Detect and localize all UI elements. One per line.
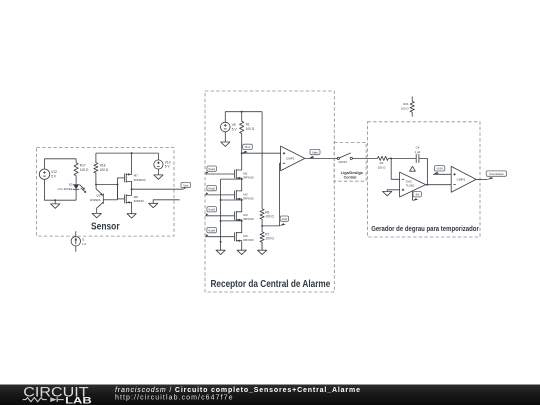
svg-text:Vsa4: Vsa4 (208, 229, 215, 233)
voltage source V9 (221, 122, 231, 132)
op-amp positive supply arrow (410, 166, 416, 171)
wire source tap M3 (221, 220, 242, 222)
svg-text:1 A: 1 A (82, 242, 86, 246)
ground under M4 (241, 242, 243, 250)
annotation box Sensor (37, 148, 174, 237)
svg-text:100 Ω: 100 Ω (246, 127, 255, 131)
svg-text:LTL-307EE: LTL-307EE (58, 187, 73, 191)
wire switch to R2 (352, 157, 376, 159)
node source tap M2 (241, 199, 243, 201)
svg-text:LAB: LAB (65, 395, 92, 405)
svg-text:100 Ω: 100 Ω (100, 168, 109, 172)
net flag Vref (280, 216, 288, 221)
wire OA2 noninverting to ground (387, 190, 399, 192)
resistor R2 (376, 156, 391, 160)
switch SW1 (337, 157, 339, 159)
svg-text:IRF630: IRF630 (243, 175, 253, 179)
net flag Vinv (243, 144, 253, 149)
resistor R6 (260, 209, 264, 226)
current source I1 (71, 237, 80, 246)
wire Vref to CMP1 (262, 163, 281, 226)
ground under Q1 (92, 213, 101, 217)
wire Vinv to CMP1 (242, 152, 281, 154)
wire CMP2 output (476, 178, 487, 180)
net flag -6V (negative supply) (412, 191, 414, 200)
node bus tap M3 (220, 220, 222, 222)
op-amp OA2 TL081 (400, 172, 426, 197)
wire gate M1 (205, 173, 234, 175)
svg-text:http://circuitlab.com/c647f7e: http://circuitlab.com/c647f7e (115, 394, 233, 401)
node source tap M1 (241, 178, 243, 180)
net flag Vsa (sensor output) (181, 182, 191, 187)
transistor M7 IRF9630 (118, 177, 125, 179)
net flag -0.6V (434, 166, 444, 171)
voltage source V12 (39, 169, 49, 179)
node R1 top (241, 111, 243, 113)
node Vref (261, 225, 263, 227)
node OA2 output (426, 184, 428, 186)
capacitor C4 (391, 157, 416, 159)
wire gate bus (117, 178, 119, 185)
ground under bus (216, 250, 225, 254)
wire gate M2 (205, 194, 234, 196)
wire OA2 output to CMP2 (426, 184, 452, 186)
net flag Vale (310, 149, 320, 154)
wire inverter output (132, 188, 184, 190)
svg-text:100 Ω: 100 Ω (378, 166, 387, 170)
svg-text:100 Ω: 100 Ω (401, 107, 410, 111)
svg-text:Vref: Vref (282, 217, 288, 221)
wire V12 bottom (45, 179, 77, 200)
comparator CMP1 (281, 146, 305, 171)
svg-text:100 Ω: 100 Ω (265, 215, 274, 219)
transistor M3 IRF630 (234, 212, 236, 221)
svg-text:IRF630: IRF630 (134, 199, 144, 203)
svg-text:1 µF: 1 µF (415, 150, 421, 154)
svg-text:Vsa2: Vsa2 (208, 187, 215, 191)
annotation box Receptor (205, 91, 334, 292)
wire R18 bottom to gates (96, 183, 118, 185)
svg-text:Liga/Desliga: Liga/Desliga (341, 171, 364, 175)
wire sensor top right rail (96, 152, 158, 154)
annotation box Gerador (368, 122, 481, 237)
resistor R18 (94, 153, 98, 184)
wire V9 top rail (225, 112, 262, 123)
resistor R21 (floating) (410, 96, 414, 116)
svg-text:-6V: -6V (415, 193, 420, 197)
node source tap M3 (241, 220, 243, 222)
resistor R17 (74, 159, 78, 182)
net flag Vsa3 (207, 207, 217, 212)
resistor R1 (240, 112, 244, 154)
svg-text:Vsa: Vsa (183, 183, 189, 187)
svg-text:100 Ω: 100 Ω (265, 237, 274, 241)
ground at OA2 + (383, 191, 392, 195)
svg-text:Vale: Vale (312, 150, 318, 154)
svg-text:Gerador de degrau para tempori: Gerador de degrau para temporizador (371, 226, 479, 233)
footer bar (0, 385, 540, 405)
wire supply riser (261, 112, 263, 209)
svg-text:Vsa1: Vsa1 (208, 167, 215, 171)
wire grounded stub (153, 200, 179, 204)
svg-text:IRF630: IRF630 (243, 217, 253, 221)
wire ground bus (220, 179, 222, 250)
wire V12 top (45, 159, 77, 169)
transistor M1 IRF630 (234, 170, 236, 179)
wire source tap M2 (221, 199, 242, 201)
wire R2 to OA2 inverting input (391, 158, 399, 179)
svg-text:CMP2: CMP2 (457, 178, 466, 182)
wire gate M3 (205, 215, 234, 217)
ground under V9 (224, 132, 226, 142)
net flag Vsa4 (207, 228, 217, 233)
svg-text:IRF630: IRF630 (243, 238, 253, 242)
wire gate M4 (205, 236, 234, 238)
svg-text:2N3906: 2N3906 (90, 198, 101, 202)
node gate bus junction (117, 183, 119, 185)
resistor R7 (260, 226, 264, 249)
node M7 drain top rail (131, 152, 133, 154)
node inverter output (131, 188, 133, 190)
svg-text:Receptor da Central de Alarme: Receptor da Central de Alarme (211, 279, 331, 290)
svg-text:Vsa3: Vsa3 (208, 208, 215, 212)
ground at sensor bottom rail (54, 200, 56, 204)
net flag Vsa1 (207, 166, 217, 171)
svg-text:Vconstante: Vconstante (489, 172, 504, 176)
ground under R7 (261, 242, 263, 250)
annotation box switch (334, 142, 366, 181)
node R2 output (390, 157, 392, 159)
wire CMP1 output (305, 157, 338, 159)
wire source tap M1 (221, 178, 242, 180)
svg-text:IRF630: IRF630 (243, 196, 253, 200)
ground under V10 (157, 169, 159, 175)
node bus tap M2 (220, 199, 222, 201)
svg-text:-0.6V: -0.6V (436, 167, 443, 171)
svg-text:IRF9630: IRF9630 (134, 178, 146, 182)
svg-text:100 Ω: 100 Ω (80, 168, 89, 172)
wire V10 top (157, 153, 159, 160)
ground under M8 (127, 214, 136, 218)
svg-text:TL081: TL081 (406, 184, 415, 188)
net flag Vconstante (486, 171, 506, 176)
LED D3 (75, 182, 77, 184)
svg-text:franciscodsm / Circuito comple: franciscodsm / Circuito completo_Sensore… (115, 387, 360, 394)
logo resistor-diode symbol (23, 398, 47, 402)
comparator CMP2 (451, 166, 476, 192)
svg-text:CMP1: CMP1 (286, 157, 295, 161)
wire -0.6V to CMP2 + (433, 173, 451, 175)
svg-text:ON/OFF: ON/OFF (338, 161, 348, 164)
net flag Vsa2 (207, 186, 217, 191)
transistor Q1 2N3906 (102, 194, 104, 204)
svg-text:Central: Central (344, 175, 357, 179)
voltage source V10 (154, 160, 163, 169)
node R18-Q1 emitter (95, 183, 97, 185)
node Vinv (241, 152, 243, 154)
ground on stub wire (149, 203, 158, 207)
svg-text:Sensor: Sensor (91, 222, 120, 233)
node bus tap M4 (220, 241, 222, 243)
transistor M8 IRF630 (118, 198, 125, 200)
svg-text:Vinv: Vinv (245, 145, 251, 149)
transistor M4 IRF630 (234, 232, 236, 241)
transistor M2 IRF630 (234, 191, 236, 200)
